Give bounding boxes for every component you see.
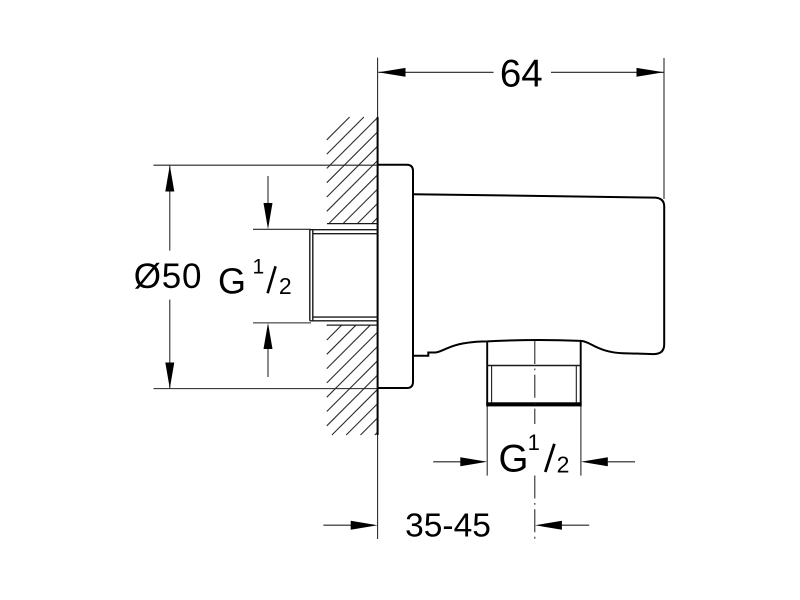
- escutcheon flange (rosette): [378, 165, 413, 388]
- outlet thread dim G1/2: right arrow: [608, 461, 635, 463]
- outlet thread top line: [487, 365, 581, 367]
- wall hatching: [327, 117, 378, 435]
- inlet thread connector G1/2: [310, 230, 378, 321]
- dimension 64: dimension line: [378, 71, 663, 73]
- svg-text:2: 2: [557, 451, 570, 477]
- wall hole top edge: [327, 223, 378, 225]
- svg-text:G: G: [499, 438, 529, 481]
- dimension 64: arrowheads: [378, 68, 405, 77]
- outlet nipple: [487, 341, 581, 407]
- svg-text:1: 1: [252, 256, 264, 279]
- center line (dash-dot) of outlet: [534, 341, 536, 539]
- dimension 64: right extension line: [663, 58, 665, 199]
- body outline: [413, 194, 664, 356]
- outlet thread inner lines: [491, 366, 493, 403]
- svg-text:1: 1: [528, 430, 540, 455]
- wall extension line bottom (35-45 dim): [377, 435, 379, 539]
- svg-text:35-45: 35-45: [405, 508, 491, 545]
- outlet extension lines: [486, 406, 488, 475]
- dimension 35-45: left arrow: [323, 524, 351, 526]
- wall hole bottom edge: [327, 324, 378, 326]
- dimension 35-45: right arrow: [562, 524, 589, 526]
- dimension D50: arrowheads: [165, 165, 174, 191]
- svg-text:64: 64: [500, 52, 543, 95]
- dimension D50: extension lines: [154, 164, 378, 166]
- inlet thread dim: top arrow: [267, 176, 269, 204]
- outlet thread dim G1/2: left arrow: [433, 461, 461, 463]
- wall extension line top (64 dim): [377, 58, 379, 117]
- svg-text:Ø50: Ø50: [134, 257, 203, 296]
- wall face line (thick section): [377, 117, 379, 435]
- dimension D50: dimension line: [169, 166, 171, 251]
- inlet thread dim: bottom arrow: [267, 349, 269, 377]
- outlet thread bottom bar: [486, 402, 581, 406]
- svg-text:2: 2: [279, 273, 292, 299]
- inlet thread dim: extension lines: [253, 228, 311, 230]
- svg-text:G: G: [218, 261, 246, 302]
